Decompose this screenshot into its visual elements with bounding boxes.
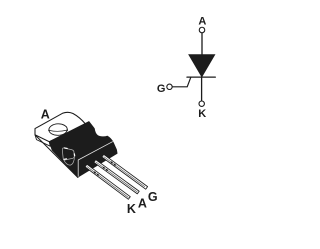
- svg-text:A: A: [198, 16, 206, 28]
- thyristor U1 TO-220 package drawing: [35, 112, 148, 199]
- svg-text:G: G: [148, 190, 158, 204]
- front face depression wireframe: [62, 148, 74, 165]
- plastic body: [49, 122, 117, 177]
- lead A shoulder beads: [102, 166, 105, 169]
- wire cathode: [201, 77, 203, 101]
- svg-text:A: A: [138, 196, 147, 210]
- cathode bar: [187, 76, 215, 78]
- SCR schematic symbol: [167, 27, 216, 106]
- tab (metal mounting tab, top surface): [35, 112, 87, 141]
- terminal A: [199, 27, 205, 33]
- svg-text:A: A: [41, 108, 50, 122]
- svg-text:K: K: [127, 202, 136, 216]
- tab bottom silhouette edge: [35, 135, 78, 178]
- lead G shoulder beads: [110, 161, 113, 164]
- lead A (anode): [94, 160, 139, 194]
- wire anode: [201, 33, 203, 55]
- body bottom-face edge highlight: [78, 142, 112, 160]
- lead K (cathode): [85, 164, 130, 199]
- SCR triangle (anode-cathode): [189, 55, 215, 77]
- terminal G: [167, 84, 172, 89]
- mounting hole: [48, 124, 68, 136]
- wire gate: [172, 77, 191, 87]
- svg-text:G: G: [157, 83, 166, 95]
- svg-text:K: K: [198, 108, 206, 120]
- depression corner highlights: [64, 148, 75, 159]
- terminal K: [199, 101, 204, 106]
- body front-right edge highlight: [77, 160, 79, 176]
- lead G (gate): [102, 154, 148, 189]
- lead K shoulder beads: [93, 171, 96, 174]
- tab front thickness face: [35, 135, 50, 146]
